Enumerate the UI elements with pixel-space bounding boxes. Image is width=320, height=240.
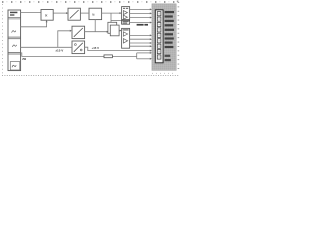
wire: U4 to U6 <box>85 31 108 33</box>
section divider 1 <box>8 37 21 39</box>
wire: driver B out 4 <box>130 45 152 47</box>
sine source symbol a <box>12 31 16 33</box>
wire: net to connector upper <box>137 52 152 54</box>
wire: driver B out 1 <box>130 34 152 36</box>
svg-text:+15 V: +15 V <box>92 46 100 50</box>
wire: column to U1 <box>21 11 41 13</box>
wire: column lower tap to U1 bottom <box>21 21 47 27</box>
wire: net to connector lower <box>137 58 152 60</box>
resistor R1 <box>104 55 112 58</box>
wire: reference out <box>130 22 152 24</box>
sine source symbol c (boxed) <box>10 62 19 70</box>
block U3 <box>89 8 102 19</box>
wire: branch down from U3 output to reference box and U6 <box>111 13 122 22</box>
block U1 <box>41 10 53 21</box>
wire: U5 out to connector <box>85 47 151 50</box>
connector pin name labels <box>165 11 174 61</box>
arrow into driver A <box>120 12 122 14</box>
driver A <box>122 7 130 20</box>
input module header box with text <box>8 12 21 19</box>
left edge dotted crop mark <box>1 4 4 73</box>
wire: U2 to U3 <box>80 12 88 14</box>
wire: U6 to driver B <box>119 30 121 32</box>
svg-text:±15 V: ±15 V <box>55 49 63 53</box>
block U6 (stacked pair) <box>108 22 119 36</box>
arrow into U4 <box>70 30 72 32</box>
wire: driver B out 3 <box>130 42 152 44</box>
wire: U3 to driver A <box>102 12 121 14</box>
svg-text:2W: 2W <box>22 57 26 61</box>
svg-text:×: × <box>45 13 48 19</box>
arrow into U6 <box>107 31 109 33</box>
arrow into U1 bottom <box>46 20 48 22</box>
driver B <box>122 28 130 48</box>
wire: driver A out 1 <box>130 8 152 10</box>
wire: driver A out 3 <box>130 17 152 19</box>
section divider 2 <box>8 52 21 54</box>
wire: U3 bottom branch down <box>94 20 96 32</box>
block U5 phase shifter <box>72 41 85 54</box>
top ruler tick row <box>2 1 178 3</box>
wire: column bottom tap with series resistor R1 <box>21 53 137 59</box>
block U4 converter <box>72 26 85 38</box>
bottom dotted crop line <box>2 73 178 76</box>
wire: junction riser into U4 <box>58 31 71 48</box>
sine source symbol b <box>12 45 16 47</box>
wire: long feed column to U5 <box>21 46 72 48</box>
arrow into U2 <box>66 12 68 14</box>
wire: driver B out 2 <box>130 38 152 40</box>
input module column <box>8 10 21 71</box>
connector pins 1-9 <box>157 12 161 60</box>
reference box <box>122 20 130 24</box>
right edge dotted crop mark <box>178 2 180 69</box>
block U2 converter <box>68 8 80 20</box>
arrow into driver B <box>120 30 122 32</box>
wire: driver A out 2 <box>130 12 152 14</box>
shaded interface region <box>152 4 176 71</box>
label IEC bus <box>137 24 144 26</box>
connector X1 <box>155 10 163 63</box>
wire: U1 to U2 <box>53 12 67 14</box>
